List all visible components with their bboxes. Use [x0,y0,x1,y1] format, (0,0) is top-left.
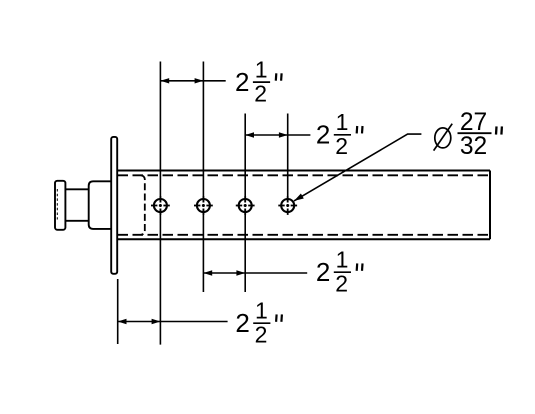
hole 3 [236,196,255,215]
cap (left end spindle cap) [55,181,65,230]
hub block [89,181,112,229]
inch mark [495,126,498,134]
dim B text 2 1/2" [316,109,363,159]
hidden line top [118,174,489,176]
leader line to hole 4 [294,134,421,201]
hole 2 [194,196,213,215]
dim B line [245,134,288,136]
extension line flange face [117,279,119,344]
dim A line [160,80,203,82]
hidden insert end [141,175,145,235]
shaft bottom line [65,220,88,222]
leader arrowhead [294,194,304,201]
bar bottom line [117,238,490,240]
dim D line [118,321,161,323]
dim C text 2 1/2" [316,246,363,296]
bar top line [117,170,490,172]
dim C line [203,272,245,274]
fraction 27/32 [458,132,492,134]
phi symbol [435,128,451,148]
knurl marks on cap [56,189,58,220]
flange plate [111,137,117,274]
shaft top line [65,188,88,190]
dim A text 2 1/2" [235,56,282,106]
extension line hole2 [202,62,204,203]
dim D text 2 1/2" [235,297,282,347]
svg-text:32: 32 [460,133,487,160]
hole 1 [151,196,170,215]
extension line hole3 [244,114,246,203]
hole 4 [278,196,297,215]
extension line hole4 [287,114,289,203]
hidden line bottom [118,234,489,236]
extension line hole1 [159,62,161,203]
bar right edge [489,171,491,240]
